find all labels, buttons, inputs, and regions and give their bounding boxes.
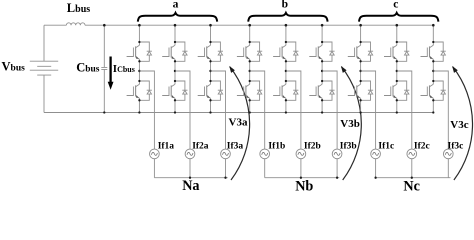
IGBT switch leg c1 top [348,41,373,63]
svg-text:If3c: If3c [448,141,464,151]
junction dot leg b3 / bottom rail [321,111,323,113]
capacitor Cbus plates [101,67,107,69]
svg-text:If2b: If2b [304,141,321,151]
junction dot + tap wire leg b2 midpoint [285,70,301,149]
IGBT switch leg b3 top [309,41,334,63]
junction dot If2a / Na rail [189,177,191,179]
junction dot If2c / Nc rail [411,177,413,179]
wire leg c3 column [432,25,434,112]
junction dot leg b2 / top bus [285,24,288,27]
svg-text:a: a [173,0,179,11]
battery Vbus: left wire down [43,25,45,112]
wire If1c to Nc rail [375,159,377,178]
junction dot + tap wire leg c3 midpoint [432,70,448,149]
svg-text:Lbus: Lbus [67,1,90,15]
svg-text:V3a: V3a [229,116,248,128]
wire leg c1 column [360,25,362,112]
IGBT switch leg c2 top [384,41,409,63]
junction dot leg c3 / top bus [432,24,435,27]
junction dot leg a2 / top bus [174,24,177,27]
junction dot leg c1 / bottom rail [359,111,361,113]
wire leg b3 column [321,25,323,112]
junction dot + tap wire leg a2 midpoint [174,70,190,149]
svg-text:ICbus: ICbus [113,63,135,75]
wire If3c to Nc rail [447,159,449,178]
current source If1c [371,149,381,159]
wire If3a to Na rail [225,159,227,178]
junction dot leg a3 / top bus [209,24,212,27]
svg-text:b: b [282,0,288,11]
svg-text:If3b: If3b [340,141,357,151]
svg-text:c: c [393,0,398,11]
svg-text:If2a: If2a [192,141,209,151]
voltage arrow V3a [229,66,249,180]
wire: bottom DC rail [44,112,433,114]
current source If1b [260,149,270,159]
wire If2b to Nb rail [300,159,302,178]
inductor Lbus [66,23,85,25]
IGBT switch leg b3 bottom [309,80,334,102]
svg-text:If1c: If1c [378,141,394,151]
wire leg c2 column [396,25,398,112]
wire If1a to Na rail [153,159,155,178]
junction dot If1c / Nc rail [374,177,376,179]
junction dot leg b1 / bottom rail [249,111,251,113]
capacitor Cbus branch wires [103,25,105,112]
current source If2a [185,149,195,159]
wire leg a3 column [210,25,212,112]
IGBT switch leg c3 top [421,41,446,63]
svg-text:If3a: If3a [227,141,244,151]
IGBT switch leg a3 bottom [198,80,223,102]
junction dot If2b / Nb rail [300,177,302,179]
brace phase b [248,13,327,22]
IGBT switch leg a2 top [162,41,187,63]
junction dot: rail/cap node [103,111,105,113]
wire If2a to Na rail [189,159,191,178]
current arrow ICbus [108,57,114,90]
current source If2c [407,149,417,159]
junction dot leg b1 / top bus [248,24,251,27]
svg-text:If2c: If2c [414,141,430,151]
junction dot If3a / Na rail [224,177,226,179]
junction dot leg c1 / top bus [359,24,362,27]
IGBT switch leg b2 top [273,41,298,63]
wire If3b to Nb rail [336,159,338,178]
wire Na rail [154,177,227,179]
junction dot + tap wire leg b3 midpoint [321,70,337,149]
IGBT switch leg c2 bottom [384,80,409,102]
junction dot leg a3 / bottom rail [209,111,211,113]
svg-text:If1b: If1b [268,141,285,151]
IGBT switch leg c3 bottom [421,80,446,102]
junction dot + tap wire leg c2 midpoint [396,70,412,149]
IGBT switch leg b2 bottom [273,80,298,102]
IGBT switch leg b1 top [237,41,262,63]
svg-text:If1a: If1a [158,141,175,151]
IGBT switch leg b1 bottom [237,80,262,102]
junction dot leg a1 / bottom rail [138,111,140,113]
junction dot leg c2 / bottom rail [396,111,398,113]
svg-text:V3c: V3c [450,119,468,131]
junction dot leg c3 / bottom rail [432,111,434,113]
wire leg b2 column [285,25,287,112]
wire leg a1 column [138,25,140,112]
wire If1b to Nb rail [264,159,266,178]
junction dot + tap wire leg c1 midpoint [359,70,375,149]
battery Vbus plates [30,61,58,75]
svg-text:Nc: Nc [403,179,420,195]
IGBT switch leg a2 bottom [162,80,187,102]
voltage arrow V3b [341,66,361,180]
svg-text:Na: Na [182,178,199,194]
junction dot leg a2 / bottom rail [174,111,176,113]
svg-text:V3b: V3b [340,118,360,130]
svg-text:Nb: Nb [295,179,313,195]
IGBT switch leg c1 bottom [348,80,373,102]
junction dot leg b2 / bottom rail [285,111,287,113]
current source If3a [221,149,231,159]
wire: top DC bus [44,24,433,26]
junction dot: bus/cap node [103,24,106,27]
junction dot leg a1 / top bus [138,24,141,27]
IGBT switch leg a3 top [198,41,223,63]
wire Nb rail [265,177,340,179]
wire Nc rail [376,177,451,179]
junction dot leg b3 / top bus [321,24,324,27]
wire If2c to Nc rail [411,159,413,178]
junction dot + tap wire leg a3 midpoint [209,70,225,149]
brace phase a [138,13,217,22]
junction dot + tap wire leg a1 midpoint [138,70,154,149]
IGBT switch leg a1 top [127,41,152,63]
junction dot + tap wire leg b1 midpoint [249,70,265,149]
IGBT switch leg a1 bottom [127,80,152,102]
brace phase c [359,13,438,22]
junction dot leg c2 / top bus [396,24,399,27]
current source If3c [443,149,453,159]
current source If3b [332,149,342,159]
current source If1a [150,149,160,159]
wire leg b1 column [249,25,251,112]
junction dot If3b / Nb rail [336,177,338,179]
wire leg a2 column [174,25,176,112]
voltage arrow V3c [452,66,472,180]
current source If2b [296,149,306,159]
